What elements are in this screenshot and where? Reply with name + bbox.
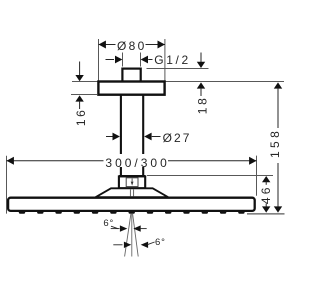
dim 16 extension line (plate bottom, to the left)	[71, 94, 97, 96]
dim Ø27 right arrow	[144, 133, 151, 141]
union nut	[119, 176, 145, 188]
center feed lines through boss	[129, 190, 131, 211]
nozzles	[19, 211, 245, 214]
dim Ø27 left arrow	[106, 136, 113, 138]
dim 46 down arrow	[265, 204, 267, 208]
svg-text:158: 158	[268, 128, 282, 158]
dim 18 extension line (fitting top, to the right)	[147, 68, 209, 70]
pipe end flange	[119, 175, 145, 178]
svg-text:46: 46	[259, 184, 273, 204]
dim 46 top extension line (nut top, to the right)	[147, 175, 273, 177]
dim Ø80 line	[99, 44, 116, 46]
dim 16 down arrow	[79, 62, 81, 77]
dim G1/2 arrow left	[106, 59, 115, 61]
dim 300/300 arrow left	[7, 157, 14, 165]
dim 300/300 right extension line	[256, 156, 258, 196]
svg-text:16: 16	[74, 108, 88, 127]
dim 18 down arrow	[200, 53, 202, 63]
svg-text:6°: 6°	[103, 218, 114, 229]
spray line right	[133, 214, 139, 257]
svg-text:18: 18	[195, 96, 209, 115]
G1/2 fitting on top of ceiling plate	[122, 69, 140, 82]
dim 300/300 arrow right	[249, 157, 256, 165]
ceiling plate	[98, 82, 164, 95]
dim Ø80 arrow left	[99, 41, 106, 49]
ceiling line	[72, 81, 284, 83]
dim 300/300 left extension line	[6, 156, 8, 214]
svg-text:G1/2: G1/2	[154, 53, 190, 67]
dim 158 line lower	[277, 163, 279, 207]
nut inner sleeve	[126, 178, 138, 187]
spray line left	[125, 214, 131, 257]
upper left-pointing arrow	[133, 225, 140, 231]
dim G1/2 extension line right	[140, 53, 142, 67]
lower left-pointing arrow	[141, 242, 148, 248]
dim 300/300 line	[7, 160, 105, 162]
dim 46 up arrow	[262, 176, 270, 182]
boss trapezoid	[96, 188, 169, 197]
dim G1/2 arrow right	[141, 56, 148, 64]
dim 158 down arrow	[274, 206, 282, 212]
dim 18 up arrow	[197, 82, 205, 88]
svg-text:Ø80: Ø80	[117, 39, 147, 53]
svg-text:6°: 6°	[155, 237, 166, 248]
dim 158 up arrow	[274, 82, 282, 88]
dim Ø80 extension line right	[164, 39, 166, 81]
upper right-pointing arrow	[111, 228, 120, 230]
dim G1/2 extension line left	[122, 53, 124, 67]
dim Ø80 extension line left	[98, 39, 100, 81]
dim 16 up arrow	[75, 95, 83, 101]
dim 300/300 text	[104, 154, 169, 167]
dim 46 bottom extension line	[247, 213, 285, 215]
svg-text:Ø27: Ø27	[163, 131, 192, 145]
dim Ø80 arrow right	[158, 41, 165, 49]
spray origin arrow inside nut	[131, 179, 133, 182]
pipe	[120, 95, 122, 176]
shower head slab	[8, 198, 255, 211]
spray line center	[131, 214, 133, 257]
lower right-pointing arrow	[113, 244, 122, 246]
svg-text:300/300: 300/300	[105, 156, 169, 170]
upper leader	[111, 226, 118, 229]
lower leader	[148, 242, 155, 245]
